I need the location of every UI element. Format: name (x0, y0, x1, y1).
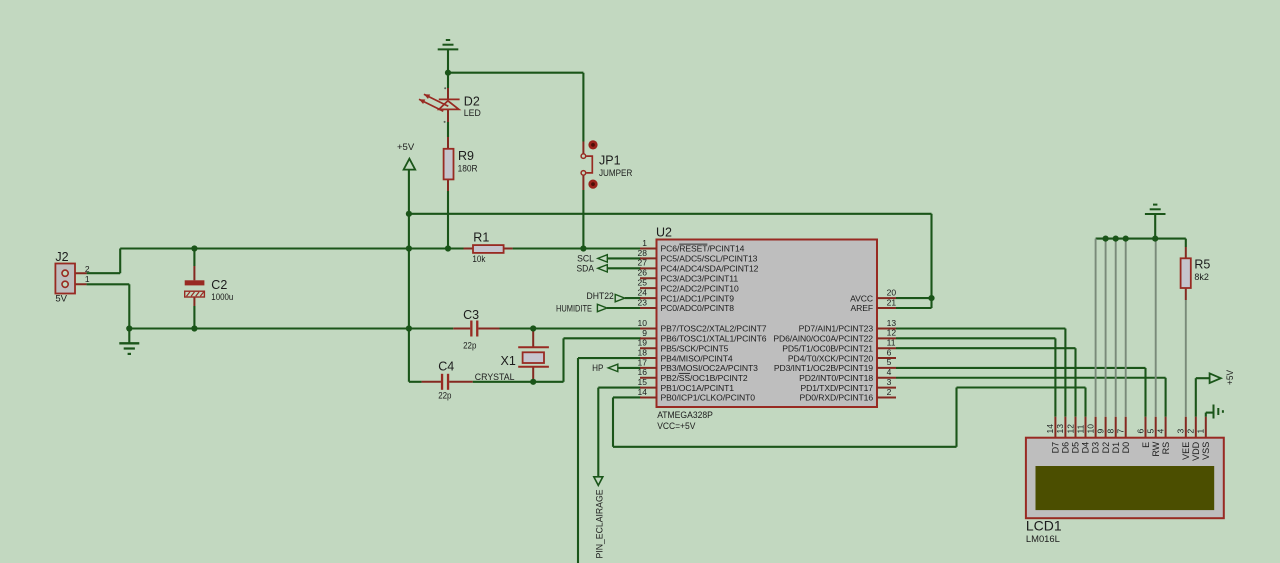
svg-text:180R: 180R (458, 164, 478, 175)
svg-text:D2: D2 (1101, 442, 1111, 454)
svg-text:ATMEGA328P: ATMEGA328P (657, 410, 713, 421)
svg-text:JP1: JP1 (599, 153, 621, 167)
svg-text:C2: C2 (211, 278, 227, 292)
svg-text:PC5/ADC5/SCL/PCINT13: PC5/ADC5/SCL/PCINT13 (661, 254, 758, 264)
svg-text:PC3/ADC3/PCINT11: PC3/ADC3/PCINT11 (661, 273, 739, 283)
svg-text:PD4/T0/XCK/PCINT20: PD4/T0/XCK/PCINT20 (788, 353, 873, 363)
svg-text:15: 15 (638, 377, 648, 387)
svg-text:D7: D7 (1051, 442, 1061, 454)
svg-text:AREF: AREF (850, 303, 873, 313)
svg-text:HUMIDITE: HUMIDITE (556, 303, 592, 314)
svg-text:HP: HP (592, 363, 603, 374)
svg-text:PD0/RXD/PCINT16: PD0/RXD/PCINT16 (800, 393, 874, 403)
svg-text:+5V: +5V (397, 142, 415, 153)
svg-text:PD7/AIN1/PCINT23: PD7/AIN1/PCINT23 (799, 324, 874, 334)
svg-text:PD1/TXD/PCINT17: PD1/TXD/PCINT17 (800, 383, 873, 393)
svg-text:27: 27 (638, 258, 648, 268)
svg-text:D4: D4 (1081, 442, 1091, 454)
svg-text:PIN_ECLAIRAGE: PIN_ECLAIRAGE (594, 490, 605, 559)
svg-text:D6: D6 (1061, 442, 1071, 454)
svg-text:LCD1: LCD1 (1026, 517, 1062, 533)
svg-text:10: 10 (638, 318, 648, 328)
svg-text:D3: D3 (1091, 442, 1101, 454)
svg-text:PD5/T1/OC0B/PCINT21: PD5/T1/OC0B/PCINT21 (782, 343, 873, 353)
svg-text:17: 17 (638, 357, 648, 367)
svg-text:1: 1 (85, 274, 90, 284)
svg-text:24: 24 (638, 287, 648, 297)
svg-text:J2: J2 (55, 250, 68, 264)
svg-text:26: 26 (638, 268, 648, 278)
svg-text:R9: R9 (458, 149, 474, 163)
svg-text:14: 14 (1045, 424, 1055, 434)
svg-text:LED: LED (464, 108, 481, 119)
svg-text:+5V: +5V (1225, 369, 1236, 385)
svg-text:PB0/ICP1/CLKO/PCINT0: PB0/ICP1/CLKO/PCINT0 (661, 393, 756, 403)
svg-text:13: 13 (887, 318, 897, 328)
svg-text:PB7/TOSC2/XTAL2/PCINT7: PB7/TOSC2/XTAL2/PCINT7 (661, 324, 767, 334)
svg-text:D5: D5 (1071, 442, 1081, 454)
svg-text:16: 16 (638, 367, 648, 377)
svg-text:2: 2 (887, 387, 892, 397)
svg-text:PB3/MOSI/OC2A/PCINT3: PB3/MOSI/OC2A/PCINT3 (661, 363, 759, 373)
svg-text:1: 1 (1196, 429, 1206, 434)
svg-text:VEE: VEE (1181, 442, 1191, 460)
svg-text:VSS: VSS (1201, 442, 1211, 460)
svg-text:PD2/INT0/PCINT18: PD2/INT0/PCINT18 (799, 373, 873, 383)
svg-text:X1: X1 (501, 354, 516, 368)
svg-text:11: 11 (1075, 424, 1085, 433)
svg-text:3: 3 (1176, 429, 1186, 434)
svg-text:18: 18 (638, 347, 648, 357)
svg-text:11: 11 (887, 338, 896, 348)
svg-text:1: 1 (642, 238, 647, 248)
svg-text:22p: 22p (438, 390, 451, 401)
svg-text:DHT22: DHT22 (587, 291, 614, 302)
svg-text:23: 23 (638, 297, 648, 307)
svg-text:12: 12 (887, 328, 897, 338)
svg-text:25: 25 (638, 278, 648, 288)
svg-text:PC6/RESET/PCINT14: PC6/RESET/PCINT14 (661, 244, 745, 254)
svg-text:13: 13 (1055, 424, 1065, 434)
svg-text:14: 14 (638, 387, 648, 397)
svg-text:PC2/ADC2/PCINT10: PC2/ADC2/PCINT10 (661, 283, 739, 293)
svg-text:PB2/SS/OC1B/PCINT2: PB2/SS/OC1B/PCINT2 (661, 373, 748, 383)
svg-text:8k2: 8k2 (1194, 272, 1209, 283)
svg-text:7: 7 (1115, 429, 1125, 434)
svg-text:RW: RW (1151, 441, 1161, 456)
svg-text:PD6/AIN0/OC0A/PCINT22: PD6/AIN0/OC0A/PCINT22 (773, 334, 873, 344)
svg-text:PB1/OC1A/PCINT1: PB1/OC1A/PCINT1 (661, 383, 735, 393)
svg-text:E: E (1141, 442, 1151, 448)
svg-text:6: 6 (1135, 429, 1145, 434)
svg-text:AVCC: AVCC (850, 293, 873, 303)
svg-text:8: 8 (1105, 429, 1115, 434)
svg-text:C4: C4 (438, 359, 454, 373)
svg-text:D2: D2 (464, 94, 480, 108)
svg-text:D1: D1 (1111, 442, 1121, 454)
svg-text:VDD: VDD (1191, 441, 1201, 461)
svg-text:9: 9 (1095, 429, 1105, 434)
svg-text:9: 9 (642, 328, 647, 338)
svg-text:12: 12 (1065, 424, 1075, 434)
svg-text:1000u: 1000u (211, 292, 233, 303)
svg-text:2: 2 (1186, 429, 1196, 434)
svg-text:3: 3 (887, 377, 892, 387)
svg-text:PB6/TOSC1/XTAL1/PCINT6: PB6/TOSC1/XTAL1/PCINT6 (661, 334, 767, 344)
svg-text:22p: 22p (463, 340, 476, 351)
svg-text:D0: D0 (1121, 442, 1131, 454)
svg-text:SDA: SDA (577, 264, 595, 275)
svg-text:R1: R1 (473, 231, 489, 245)
svg-text:PC1/ADC1/PCINT9: PC1/ADC1/PCINT9 (661, 293, 735, 303)
svg-text:PB4/MISO/PCINT4: PB4/MISO/PCINT4 (661, 353, 733, 363)
svg-text:21: 21 (887, 297, 897, 307)
svg-text:C3: C3 (463, 308, 479, 322)
svg-text:10: 10 (1085, 424, 1095, 434)
svg-text:2: 2 (85, 264, 90, 274)
svg-text:19: 19 (638, 338, 648, 348)
svg-text:CRYSTAL: CRYSTAL (475, 372, 515, 383)
svg-text:RS: RS (1161, 442, 1171, 455)
svg-text:PC0/ADC0/PCINT8: PC0/ADC0/PCINT8 (661, 303, 735, 313)
svg-text:5: 5 (1146, 429, 1156, 434)
svg-text:4: 4 (887, 367, 892, 377)
svg-text:R5: R5 (1194, 258, 1210, 272)
svg-text:U2: U2 (656, 226, 672, 240)
svg-text:6: 6 (887, 347, 892, 357)
svg-text:28: 28 (638, 248, 648, 258)
svg-text:PD3/INT1/OC2B/PCINT19: PD3/INT1/OC2B/PCINT19 (774, 363, 873, 373)
svg-text:5V: 5V (55, 294, 67, 305)
svg-text:PC4/ADC4/SDA/PCINT12: PC4/ADC4/SDA/PCINT12 (661, 264, 759, 274)
svg-text:LM016L: LM016L (1026, 534, 1060, 545)
svg-text:JUMPER: JUMPER (599, 168, 632, 179)
svg-text:4: 4 (1156, 429, 1166, 434)
svg-text:20: 20 (887, 287, 897, 297)
svg-text:10k: 10k (472, 254, 485, 265)
svg-text:5: 5 (887, 357, 892, 367)
svg-text:PB5/SCK/PCINT5: PB5/SCK/PCINT5 (661, 343, 729, 353)
svg-text:VCC=+5V: VCC=+5V (657, 421, 696, 432)
